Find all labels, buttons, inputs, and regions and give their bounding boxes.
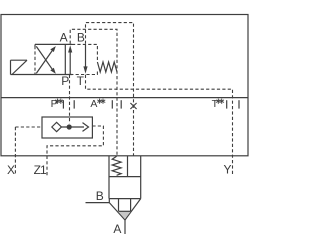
svg-text:A: A <box>113 222 121 236</box>
svg-text:B: B <box>96 189 104 203</box>
svg-text:T: T <box>77 74 85 88</box>
svg-text:P: P <box>61 74 69 88</box>
svg-text:A: A <box>60 31 68 45</box>
svg-text:T: T <box>212 98 219 110</box>
svg-text:B: B <box>77 31 85 45</box>
svg-text:Z1: Z1 <box>34 163 47 177</box>
svg-text:X: X <box>7 163 15 177</box>
svg-text:P: P <box>51 98 58 110</box>
svg-text:A: A <box>90 98 97 110</box>
svg-text:Y: Y <box>224 163 232 177</box>
